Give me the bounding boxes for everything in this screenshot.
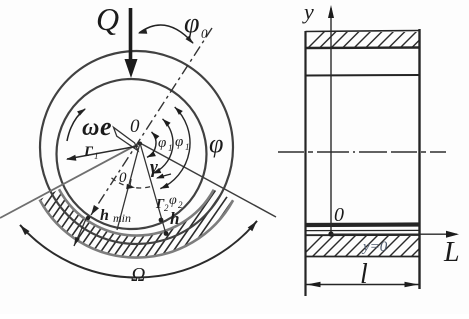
svg-text:γ: γ (150, 157, 158, 178)
svg-text:φ: φ (169, 193, 177, 208)
svg-text:h: h (100, 207, 109, 224)
svg-text:Q: Q (96, 1, 119, 37)
svg-text:1: 1 (168, 143, 173, 153)
svg-text:φ: φ (184, 8, 200, 39)
svg-text:φ: φ (175, 134, 183, 150)
svg-text:Ω: Ω (131, 264, 145, 286)
svg-text:Γ: Γ (83, 144, 94, 160)
svg-text:L: L (443, 237, 460, 268)
svg-text:1: 1 (185, 142, 190, 152)
svg-text:φ: φ (158, 135, 166, 151)
svg-text:y=0: y=0 (361, 239, 388, 255)
svg-text:0: 0 (201, 26, 208, 41)
svg-text:y: y (302, 0, 314, 24)
svg-text:1: 1 (94, 151, 99, 161)
svg-text:h: h (170, 209, 179, 228)
svg-text:e: e (100, 112, 112, 141)
svg-text:ω: ω (82, 115, 99, 141)
svg-text:0: 0 (334, 204, 344, 226)
svg-text:0: 0 (130, 116, 140, 137)
svg-text:0: 0 (119, 170, 127, 186)
svg-text:l: l (360, 259, 368, 290)
svg-text:φ: φ (209, 129, 223, 158)
svg-text:min: min (113, 211, 131, 225)
svg-text:1: 1 (128, 178, 133, 189)
